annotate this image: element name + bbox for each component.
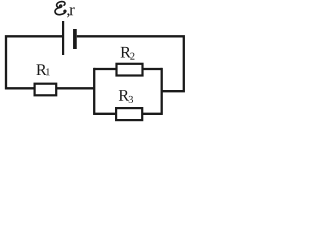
label R1 subscript 1 <box>46 68 50 75</box>
wire: R2 branch left stub <box>94 68 117 70</box>
label comma <box>67 13 69 17</box>
label R1 'R' <box>36 64 46 75</box>
label script-E (EMF symbol) <box>55 2 66 15</box>
label R3 'R' <box>119 90 129 101</box>
wire: parallel block right vertical <box>161 69 163 114</box>
resistor R3 box <box>116 108 142 120</box>
label r (internal resistance) <box>69 7 74 15</box>
resistor R2 box <box>117 64 143 76</box>
wire: top-right outer loop (battery to top-right corner, right side down) <box>77 36 184 91</box>
wire: R2 branch right stub <box>142 68 162 70</box>
label R3 subscript 3 <box>129 96 133 103</box>
wire: top-left outer loop (top wire to battery, left side, down to R1) <box>6 36 62 88</box>
wire: R3 branch right stub <box>142 113 162 115</box>
resistor R1 box <box>35 84 57 96</box>
wire: R3 branch left stub <box>94 113 117 115</box>
battery short thick plate (negative) <box>73 29 77 49</box>
wire: R1 output to parallel block <box>56 87 96 89</box>
battery long plate (positive) <box>62 21 64 55</box>
label R2 subscript 2 <box>130 53 134 60</box>
wire: parallel block left vertical <box>93 69 95 114</box>
label R2 'R' <box>121 47 131 58</box>
